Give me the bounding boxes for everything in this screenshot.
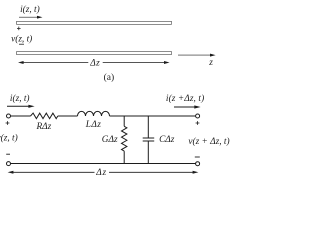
dimension line delta-z (b) xyxy=(8,171,199,174)
wire C branch top xyxy=(147,116,149,138)
terminal circle top-left xyxy=(7,114,11,118)
svg-text:i(z +Δz, t): i(z +Δz, t) xyxy=(166,93,204,104)
svg-text:Δz: Δz xyxy=(89,58,100,68)
capacitor C delta-z plates xyxy=(143,138,155,141)
svg-text:RΔz: RΔz xyxy=(36,122,52,132)
svg-text:LΔz: LΔz xyxy=(85,120,101,130)
top conductor xyxy=(17,21,172,24)
svg-text:GΔz: GΔz xyxy=(102,135,118,145)
inductor L delta-z xyxy=(78,111,110,116)
wire inductor to right terminal xyxy=(110,115,196,117)
svg-text:i(z, t): i(z, t) xyxy=(20,4,40,15)
plus sign right (b) xyxy=(196,121,200,125)
conductance G delta-z (vertical zigzag) xyxy=(122,126,127,151)
minus sign right (b) xyxy=(195,156,200,158)
minus sign left (b) xyxy=(6,153,10,155)
current arrow i(z,t) part a xyxy=(19,16,43,19)
terminal circle bottom-left xyxy=(7,162,11,166)
resistor R delta-z xyxy=(31,113,58,119)
current arrow i(z+dz,t) xyxy=(174,105,201,108)
wire resistor to inductor xyxy=(58,115,78,117)
wire C branch bottom xyxy=(147,141,149,164)
wire G branch bottom xyxy=(123,151,125,163)
current arrow i(z,t) part b xyxy=(7,105,35,108)
bottom wire xyxy=(11,163,196,165)
svg-text:v(z, t): v(z, t) xyxy=(11,33,32,44)
svg-text:v(z + Δz, t): v(z + Δz, t) xyxy=(188,136,229,147)
minus sign (a) xyxy=(19,43,24,45)
plus sign (a) xyxy=(17,27,21,31)
svg-text:(a): (a) xyxy=(104,72,115,83)
svg-text:Δz: Δz xyxy=(95,168,107,178)
svg-text:CΔz: CΔz xyxy=(159,135,175,145)
wire G branch top xyxy=(123,116,125,126)
wire terminal to resistor xyxy=(11,115,31,117)
terminal circle bottom-right xyxy=(196,162,200,166)
bottom conductor xyxy=(17,52,172,55)
svg-text:z: z xyxy=(208,58,213,68)
dimension line delta-z (a) xyxy=(18,61,170,64)
z axis arrow xyxy=(178,54,216,57)
terminal circle top-right xyxy=(196,114,200,118)
svg-text:i(z, t): i(z, t) xyxy=(10,93,30,104)
svg-text:v(z, t): v(z, t) xyxy=(0,133,18,144)
plus sign left (b) xyxy=(6,121,10,125)
